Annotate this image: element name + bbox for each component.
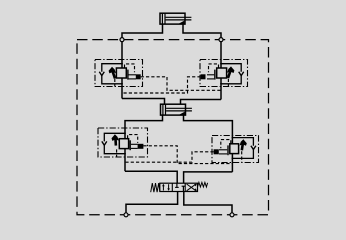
V2 valve main square [217, 68, 227, 78]
port node P (boundary crossing) [124, 213, 128, 217]
V2 pilot chamber channel [207, 75, 214, 79]
V4 junction dot top [232, 137, 234, 139]
port node T (boundary crossing) [230, 213, 234, 217]
wire V1 to cyl2 top-left port [122, 99, 165, 105]
V4 junction dot bottom [232, 158, 234, 160]
V4 valve enclosure (dash-dot) [212, 136, 259, 163]
V1 main line lower [121, 78, 123, 99]
V3 junction dot bottom [124, 153, 126, 155]
V2 internal pilot line (dashed) [209, 64, 219, 72]
DV centre position (blocked ports) [175, 183, 185, 191]
V2 relief setting arrow [227, 66, 234, 78]
V2 junction dot bottom [220, 83, 222, 85]
V1 valve enclosure (dash-dot) [95, 60, 143, 87]
V1 check valve branch wire (top) [102, 64, 122, 72]
V3 relief setting arrow [112, 134, 119, 145]
wire A line to directional valve [125, 171, 177, 183]
wire V2 to cyl2 top-right port [181, 100, 222, 105]
V4 spring seat bar [227, 145, 229, 155]
V2 check valve branch wire (bottom) [221, 75, 241, 83]
pilot line V1 (dashed, to opposite line) [141, 77, 221, 91]
wire P port to boundary [126, 192, 178, 215]
V4 relief setting arrow [240, 139, 247, 150]
V1 drain line (dashed) [114, 79, 116, 87]
V2 check valve branch wire (top) [221, 64, 241, 72]
V1 junction dot bottom [121, 83, 123, 85]
V3 check valve branch wire (top) [104, 133, 125, 141]
V1 check valve (free reverse flow) [99, 72, 104, 76]
port node A (boundary crossing) [120, 38, 124, 42]
V1 pilot piston block [136, 74, 141, 79]
V3 pilot chamber channel [131, 144, 138, 148]
DV left spring [151, 183, 160, 192]
pilot line V2 (dashed, to opposite line) [122, 77, 201, 93]
V1 junction dot top [121, 63, 123, 65]
V3 check valve branch wire (bottom) [104, 145, 125, 154]
system boundary (dashed enclosure) [77, 40, 269, 215]
V2 junction dot top [220, 63, 222, 65]
wire T port to boundary [184, 192, 232, 215]
pilot line V4 (dashed, to opposite line) [126, 152, 214, 162]
DV left position (parallel arrows) [162, 184, 170, 191]
V1 check valve branch wire (bottom) [102, 75, 122, 83]
wire cyl2 bottom-right port to V4 [184, 115, 233, 144]
V1 internal pilot line (dashed) [125, 64, 135, 72]
V4 drain line (dashed) [241, 151, 243, 162]
wire cyl1 right port to node P2 [183, 24, 221, 68]
V4 check valve branch wire (top) [232, 138, 253, 146]
V3 main line lower [124, 149, 126, 172]
V4 internal pilot line (dashed) [221, 140, 231, 149]
cylinder 2 (middle, double-acting) [161, 104, 192, 115]
cylinder 1 (top, double-acting) [160, 13, 191, 24]
V1 pilot chamber channel [129, 75, 137, 79]
V4 valve main square [230, 144, 239, 154]
port node B (boundary crossing) [219, 38, 223, 42]
wire B line to directional valve [184, 172, 233, 183]
V3 spring seat bar [129, 140, 131, 150]
V4 main line lower [231, 154, 233, 172]
V3 valve main square [119, 139, 128, 149]
pilot line V3 (dashed, to opposite line) [143, 146, 232, 164]
DV right position (crossed arrows) [187, 184, 197, 191]
V1 relief setting arrow [109, 67, 116, 79]
V2 spring seat bar [214, 70, 216, 80]
V1 valve main square [116, 68, 126, 78]
V4 pilot piston block [214, 149, 219, 154]
V3 internal pilot line (dashed) [128, 135, 138, 143]
V3 valve enclosure (dash-dot) [98, 128, 148, 157]
V2 drain line (dashed) [227, 79, 229, 87]
V3 check valve (free reverse flow) [102, 141, 107, 145]
V2 valve enclosure (dash-dot) [200, 60, 248, 87]
V2 main line lower [220, 78, 222, 100]
wire cyl1 left port to node P1 [122, 24, 163, 68]
V3 pilot piston block [138, 144, 144, 149]
directional valve DV body (3 positions) [160, 183, 198, 191]
V2 pilot piston block [201, 74, 206, 79]
V3 drain line (dashed) [116, 149, 118, 156]
V4 pilot chamber channel [219, 150, 227, 154]
V1 spring seat bar [127, 70, 129, 80]
V3 junction dot top [124, 132, 126, 134]
V2 check valve (free reverse flow) [239, 72, 244, 76]
V4 check valve branch wire (bottom) [232, 149, 253, 158]
V4 check valve (free reverse flow) [251, 146, 256, 150]
wire cyl2 bottom-left port to V3 [125, 115, 163, 139]
DV right spring [198, 182, 208, 187]
